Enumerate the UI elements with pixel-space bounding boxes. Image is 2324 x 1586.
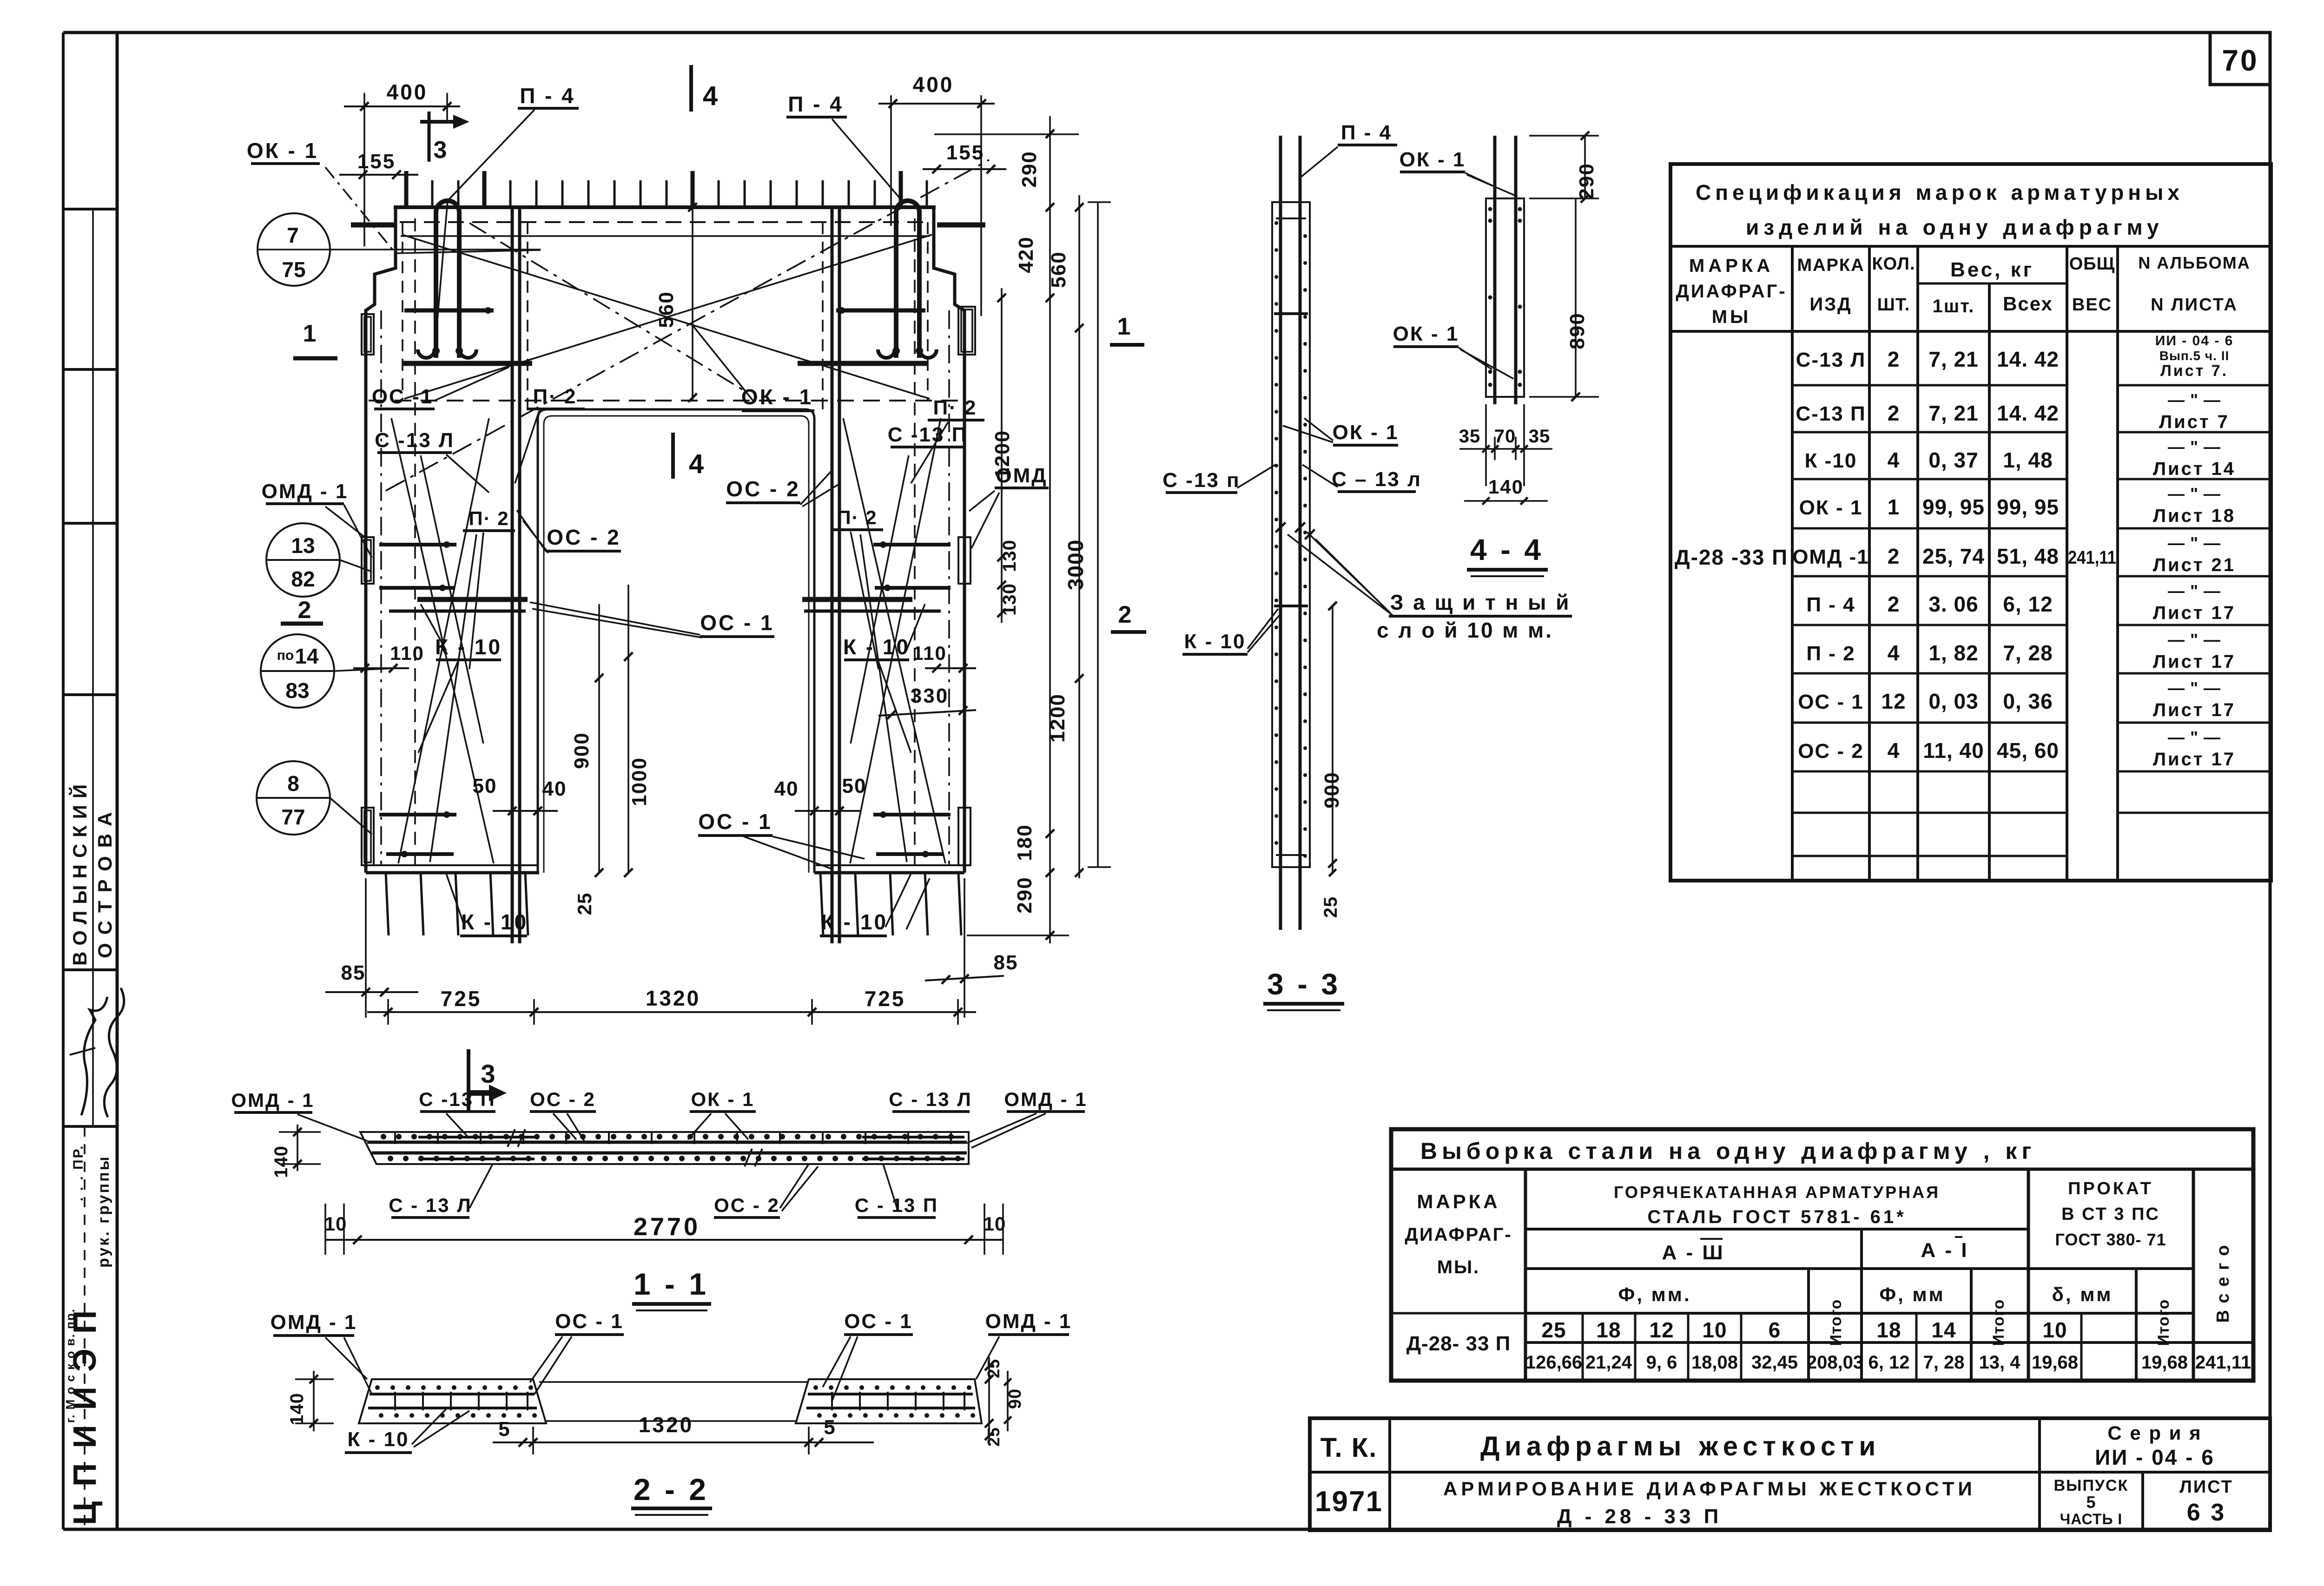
svg-text:140: 140 [287,1393,307,1425]
svg-text:МАРКА: МАРКА [1689,256,1774,276]
panel bottom edge left column [366,871,539,875]
svg-text:С -13 Л: С -13 Л [375,429,455,452]
svg-text:К - 10: К - 10 [348,1428,409,1451]
svg-text:3. 06: 3. 06 [1928,592,1978,616]
beam inner line [401,235,930,237]
svg-text:Лист 14: Лист 14 [2153,459,2236,479]
svg-text:ОМД - 1: ОМД - 1 [271,1311,357,1334]
mid bars right column [873,543,951,546]
svg-text:— ʺ —: — ʺ — [2168,581,2221,600]
opening outline [538,409,814,873]
svg-text:ГОРЯЧЕКАТАННАЯ АРМАТУРНАЯ: ГОРЯЧЕКАТАННАЯ АРМАТУРНАЯ [1614,1183,1940,1202]
svg-text:Д-28 -33 П: Д-28 -33 П [1675,545,1788,569]
svg-text:725: 725 [865,987,906,1011]
svg-text:— ʺ —: — ʺ — [2168,678,2221,698]
bottom bars left column [379,813,456,816]
top protruding ticks [404,171,409,207]
hooks under hairpins [418,349,435,358]
svg-text:Лист 7: Лист 7 [2159,412,2230,432]
svg-text:19,68: 19,68 [2032,1352,2078,1373]
svg-text:3000: 3000 [1063,539,1088,590]
section 3-3 cover ticks [1275,522,1285,532]
section 2-2 left block [359,1379,546,1423]
svg-text:290: 290 [1575,163,1598,199]
svg-text:Д - 28 - 33 П: Д - 28 - 33 П [1557,1505,1722,1528]
svg-text:КОЛ.: КОЛ. [1872,254,1915,274]
right dim chain outer [1078,195,1080,878]
svg-text:ОС - 2: ОС - 2 [714,1194,780,1216]
panel right outline [934,207,964,873]
svg-text:Всех: Всех [2003,293,2053,315]
svg-text:ГОСТ 380- 71: ГОСТ 380- 71 [2055,1230,2166,1249]
svg-text:ОСТРОВА: ОСТРОВА [94,804,116,958]
svg-text:1, 48: 1, 48 [2003,448,2053,472]
svg-text:3: 3 [434,137,447,164]
svg-text:1320: 1320 [639,1413,693,1437]
svg-text:ОМД - 1: ОМД - 1 [1004,1088,1087,1110]
svg-text:С – 13 л: С – 13 л [1332,468,1422,491]
svg-text:290: 290 [1018,151,1041,187]
svg-text:18: 18 [1596,1318,1621,1342]
circle 7/75 [257,213,330,286]
svg-text:110: 110 [912,642,947,664]
circle 8/77 [257,761,330,835]
svg-text:ВЕС: ВЕС [2072,295,2112,315]
svg-text:К - 10: К - 10 [843,635,910,659]
svg-text:4: 4 [1888,448,1900,472]
svg-text:12: 12 [1649,1318,1674,1342]
svg-text:Спецификация марок арматур: Спецификация марок арматурных [1696,180,2184,204]
svg-text:ИИ - 04 - 6: ИИ - 04 - 6 [2155,333,2234,349]
svg-text:ОМД - 1: ОМД - 1 [231,1089,314,1111]
svg-text:0, 36: 0, 36 [2003,689,2053,713]
svg-text:Лист 21: Лист 21 [2153,555,2236,575]
sheet number box 70 [2210,33,2270,85]
svg-text:51, 48: 51, 48 [1997,544,2059,568]
svg-text:7: 7 [287,223,299,247]
OK-1 bar end right [937,223,985,228]
svg-text:3 - 3: 3 - 3 [1267,967,1340,1001]
svg-text:— ʺ —: — ʺ — [2168,630,2221,649]
svg-text:2: 2 [298,597,311,624]
stamp signatures [81,997,107,1115]
section mark 3 bottom [467,1049,470,1112]
svg-text:ОС - 2: ОС - 2 [1798,740,1864,763]
svg-text:Итого: Итого [1990,1299,2007,1346]
svg-text:4: 4 [703,81,718,111]
svg-text:— ʺ —: — ʺ — [2168,390,2221,409]
section mark 4 top [689,65,693,112]
right dim chain mid [1049,116,1051,943]
svg-text:ПРОКАТ: ПРОКАТ [2068,1179,2153,1198]
svg-text:с л о й 10 м м.: с л о й 10 м м. [1377,618,1553,642]
bottom protruding ticks left [386,873,389,935]
title block frame [1310,1418,2270,1530]
svg-text:ЧАСТЬ I: ЧАСТЬ I [2060,1511,2122,1527]
section 3-3 bars [1279,136,1282,930]
svg-text:Вып.5 ч. II: Вып.5 ч. II [2159,349,2230,363]
svg-text:Т. К.: Т. К. [1320,1433,1378,1463]
svg-text:2: 2 [1118,601,1132,628]
svg-text:С - 13 Л: С - 13 Л [389,1194,472,1216]
svg-text:В с е г о: В с е г о [2213,1244,2233,1323]
svg-text:8: 8 [287,771,299,796]
svg-text:5: 5 [498,1418,510,1441]
svg-text:1: 1 [1117,313,1131,340]
svg-text:3: 3 [481,1059,495,1088]
bottom bars right column [873,813,951,816]
svg-text:Д-28- 33 П: Д-28- 33 П [1406,1332,1511,1355]
svg-text:35: 35 [1459,426,1481,447]
section 1-1 dots [381,1134,386,1139]
svg-text:Лист 17: Лист 17 [2153,603,2236,623]
section 3-3 inner ties [1274,312,1308,315]
P-4 hairpin left [436,201,459,358]
svg-text:Лист 18: Лист 18 [2153,506,2236,526]
svg-text:1320: 1320 [646,986,700,1010]
section cut line 1-2 left [1097,202,1099,867]
svg-text:0, 37: 0, 37 [1928,448,1978,472]
svg-text:Итого: Итого [2155,1299,2172,1346]
svg-text:50: 50 [842,775,867,797]
section 4-4 bars [1493,136,1497,404]
section 1-1 transverse ticks [394,1133,396,1144]
svg-text:155: 155 [946,141,984,164]
section 2-2 right block [796,1379,982,1423]
svg-text:14: 14 [1931,1318,1956,1342]
svg-text:5: 5 [2086,1493,2096,1512]
svg-text:П - 4: П - 4 [1806,593,1855,616]
svg-text:83: 83 [285,678,309,703]
section 4-4 dim 890 [1575,198,1577,397]
svg-text:99, 95: 99, 95 [1997,495,2059,519]
svg-text:40: 40 [542,777,567,800]
svg-text:Ф, мм: Ф, мм [1879,1283,1945,1305]
svg-text:С -13 п: С -13 п [1162,469,1240,492]
svg-text:1971: 1971 [1315,1486,1383,1518]
svg-text:П - 2: П - 2 [1806,642,1855,665]
svg-text:ОМД - 1: ОМД - 1 [985,1310,1072,1333]
svg-text:560: 560 [655,291,678,328]
svg-text:К - 10: К - 10 [821,910,888,934]
svg-text:7, 28: 7, 28 [2003,641,2053,665]
svg-text:А - I: А - I [1921,1239,1968,1262]
svg-text:по: по [277,648,294,663]
beam bottom dashed line [369,400,962,401]
svg-text:1, 82: 1, 82 [1928,641,1978,665]
svg-text:— ʺ —: — ʺ — [2168,437,2221,456]
svg-text:400: 400 [913,72,954,97]
svg-text:С -13 П: С -13 П [419,1088,496,1110]
svg-text:4: 4 [1888,641,1900,665]
svg-text:δ, мм: δ, мм [2052,1283,2113,1305]
svg-text:ШТ.: ШТ. [1877,295,1910,315]
svg-text:4: 4 [1888,738,1900,763]
svg-text:ОК - 1: ОК - 1 [1400,148,1466,171]
svg-text:900: 900 [570,732,593,769]
svg-text:725: 725 [441,987,482,1011]
svg-text:75: 75 [282,257,305,282]
crossing thin diagonals right column [843,418,945,863]
svg-text:180: 180 [1013,824,1036,861]
svg-text:Ф, мм.: Ф, мм. [1618,1283,1691,1305]
svg-text:13, 4: 13, 4 [1979,1352,2021,1373]
svg-text:4 - 4: 4 - 4 [1470,533,1544,566]
svg-text:7, 21: 7, 21 [1928,401,1978,425]
embedded plates right edge [958,307,975,355]
svg-text:14. 42: 14. 42 [1997,401,2059,425]
svg-text:ОМД -1: ОМД -1 [1792,546,1869,568]
specification table frame [1670,164,2271,881]
svg-text:ОМД - 1: ОМД - 1 [262,480,349,503]
panel left outline [366,207,396,873]
section 2-2 connecting lines [539,1381,809,1383]
svg-text:— ʺ —: — ʺ — [2168,728,2221,747]
svg-text:ОС - 1: ОС - 1 [1798,691,1864,713]
svg-text:5: 5 [824,1416,835,1439]
svg-text:45, 60: 45, 60 [1997,738,2059,763]
svg-text:85: 85 [341,961,366,984]
section 4-4 dots [1488,207,1492,211]
svg-text:П - 4: П - 4 [520,84,575,108]
svg-text:— ʺ —: — ʺ — [2168,484,2221,503]
svg-text:В СТ 3 ПС: В СТ 3 ПС [2061,1204,2160,1224]
svg-text:г. М о с к о в. пр.: г. М о с к о в. пр. [63,1308,77,1423]
svg-text:N ЛИСТА: N ЛИСТА [2151,295,2238,315]
svg-text:К - 10: К - 10 [1184,630,1246,653]
svg-text:ВОЛЫНСКИЙ: ВОЛЫНСКИЙ [68,778,91,966]
svg-text:МАРКА: МАРКА [1417,1191,1500,1212]
svg-text:14. 42: 14. 42 [1997,347,2059,371]
svg-text:ДИАФРАГ-: ДИАФРАГ- [1405,1224,1512,1245]
svg-text:ОС - 2: ОС - 2 [726,477,800,501]
svg-text:32,45: 32,45 [1751,1352,1798,1373]
svg-text:21,24: 21,24 [1585,1352,1632,1373]
svg-text:— ʺ —: — ʺ — [2168,533,2221,553]
svg-text:Лист 17: Лист 17 [2153,652,2236,672]
svg-text:ОС - 2: ОС - 2 [530,1088,596,1110]
svg-text:13: 13 [291,533,315,558]
svg-text:ВЫПУСК: ВЫПУСК [2054,1477,2129,1494]
svg-text:330: 330 [911,684,949,707]
section 4-4 outline [1486,198,1524,397]
svg-text:Лист 7.: Лист 7. [2160,362,2228,380]
left stamp strip dividers [63,208,117,211]
steel table header [1524,1169,1527,1381]
crossing thin diagonals beam [402,235,930,399]
svg-text:18: 18 [1876,1318,1901,1342]
svg-text:420: 420 [1015,236,1037,273]
page frame [63,31,2270,34]
section 3-3 dots [1274,221,1278,225]
svg-text:СТАЛЬ ГОСТ 5781- 61*: СТАЛЬ ГОСТ 5781- 61* [1647,1207,1906,1227]
svg-text:К - 10: К - 10 [461,910,528,934]
OS-1 top bars right [836,309,925,313]
svg-text:С - 13 Л: С - 13 Л [889,1088,972,1110]
svg-text:19,68: 19,68 [2141,1352,2188,1373]
svg-text:6 3: 6 3 [2187,1499,2226,1526]
svg-text:140: 140 [1488,476,1524,498]
svg-text:290: 290 [1013,876,1036,913]
svg-text:ОС - 2: ОС - 2 [547,525,621,549]
svg-text:6: 6 [1769,1318,1781,1342]
svg-text:П· 2: П· 2 [933,396,977,419]
svg-text:Вес, кг: Вес, кг [1950,258,2034,281]
svg-text:Лист 17: Лист 17 [2153,749,2236,770]
svg-text:МЫ: МЫ [1712,307,1751,327]
svg-text:Диафрагмы жесткости: Диафрагмы жесткости [1480,1431,1881,1461]
embedded plates left edge [362,314,374,355]
right dim chain inner [1001,288,1003,623]
section 2-2 right block bars [808,1393,973,1395]
svg-text:1200: 1200 [1046,693,1069,743]
svg-text:ОС - 1: ОС - 1 [698,809,772,834]
svg-text:85: 85 [994,951,1018,974]
svg-text:2: 2 [1888,544,1900,568]
svg-text:1: 1 [303,320,317,347]
svg-text:МАРКА: МАРКА [1797,256,1864,275]
svg-text:2 - 2: 2 - 2 [634,1472,709,1507]
svg-text:С-13 Л: С-13 Л [1796,349,1866,371]
svg-text:1 - 1: 1 - 1 [634,1267,709,1301]
svg-text:25: 25 [574,893,595,915]
svg-text:МЫ.: МЫ. [1437,1257,1480,1277]
svg-text:2770: 2770 [634,1213,700,1241]
svg-text:АРМИРОВАНИЕ ДИАФРАГМЫ ЖЕСТ: АРМИРОВАНИЕ ДИАФРАГМЫ ЖЕСТКОСТИ [1443,1478,1976,1500]
svg-text:7, 21: 7, 21 [1928,347,1978,371]
svg-text:ОС - 1: ОС - 1 [700,611,774,635]
svg-text:11, 40: 11, 40 [1923,738,1984,763]
svg-text:С-13 П: С-13 П [1796,402,1866,425]
bottom main dim row [367,1011,976,1013]
svg-text:6, 12: 6, 12 [1868,1352,1910,1373]
svg-text:155: 155 [357,150,396,173]
svg-text:4: 4 [689,449,704,479]
svg-text:130: 130 [999,540,1020,572]
column outer dash-dot lines [380,310,382,864]
section mark 4 in opening [671,433,675,479]
circle po14/83 [261,634,334,708]
svg-text:ДИАФРАГ-: ДИАФРАГ- [1676,281,1787,302]
svg-text:ОК - 1: ОК - 1 [691,1088,755,1110]
svg-text:2: 2 [1888,592,1900,616]
svg-text:7, 28: 7, 28 [1923,1352,1965,1373]
svg-text:Лист 17: Лист 17 [2153,700,2236,720]
panel top edge [394,205,936,209]
long dash-dot brace [386,160,989,491]
vertical dim 1000 [627,585,629,873]
OS-1 top bars left [404,309,494,313]
svg-text:241,11: 241,11 [2068,547,2116,568]
mid bars left column [379,543,456,546]
dashed verticals in beam [402,222,403,401]
svg-text:П· 2: П· 2 [469,507,509,529]
svg-text:25: 25 [1541,1318,1566,1342]
svg-text:2: 2 [1888,401,1900,425]
svg-text:ИИ - 04 - 6: ИИ - 04 - 6 [2095,1445,2215,1469]
svg-text:Итого: Итого [1827,1299,1845,1346]
panel top cover dashed line [400,221,930,223]
specification table rows [1792,384,2067,387]
P-4 hairpin right [896,201,919,358]
svg-text:130: 130 [999,583,1020,616]
svg-text:ОК - 1: ОК - 1 [247,138,318,163]
svg-text:1шт.: 1шт. [1933,296,1975,316]
svg-text:126,66: 126,66 [1525,1352,1582,1373]
svg-text:12: 12 [1881,689,1906,713]
svg-text:А - Ш: А - Ш [1662,1241,1724,1264]
svg-text:К -10: К -10 [1805,449,1857,472]
svg-text:6, 12: 6, 12 [2003,592,2053,616]
svg-text:З а щ и т н ы й: З а щ и т н ы й [1390,590,1571,614]
svg-text:. . . ПР.: . . . ПР. [71,1145,86,1201]
svg-text:208,03: 208,03 [1807,1352,1863,1373]
svg-text:99, 95: 99, 95 [1922,495,1985,519]
svg-text:Выборка стали на одну диа: Выборка стали на одну диафрагму , кг [1420,1138,2036,1164]
svg-text:ОС - 1: ОС - 1 [555,1310,624,1333]
svg-text:77: 77 [281,805,305,829]
circle 13/82 [266,523,340,597]
svg-text:ОК - 1: ОК - 1 [1393,322,1459,345]
svg-text:40: 40 [774,777,799,800]
svg-text:9, 6: 9, 6 [1646,1352,1677,1373]
svg-text:С е р и я: С е р и я [2107,1422,2202,1444]
section 1-1 dim 2770 [325,1239,1003,1241]
svg-text:П· 2: П· 2 [533,385,577,408]
svg-text:ОК - 1: ОК - 1 [741,385,813,409]
svg-text:ОК - 1: ОК - 1 [1333,421,1399,444]
svg-text:10: 10 [2042,1318,2067,1342]
svg-text:1000: 1000 [628,757,651,806]
svg-text:изделий на одну диафрагм: изделий на одну диафрагму [1746,215,2164,239]
section 4-4 dim 290 [1584,136,1586,198]
svg-text:50: 50 [473,775,497,797]
OK-1 bar end left [351,223,396,228]
svg-text:241,11: 241,11 [2195,1352,2251,1373]
svg-text:890: 890 [1566,312,1589,349]
svg-text:82: 82 [291,567,315,591]
dim 560 mid [692,207,693,400]
svg-text:2: 2 [1888,347,1900,371]
svg-text:70: 70 [2222,44,2258,77]
svg-text:1: 1 [1888,495,1900,519]
svg-text:900: 900 [1320,771,1343,808]
svg-text:560: 560 [1047,251,1070,288]
svg-text:П - 4: П - 4 [788,92,844,116]
P-2 double bars right column [831,207,834,943]
svg-text:0, 03: 0, 03 [1928,689,1978,713]
svg-text:С -13 П: С -13 П [888,423,968,446]
section 3-3 dim 900 [1332,606,1334,873]
svg-text:ИЗД: ИЗД [1809,294,1852,315]
svg-text:1200: 1200 [991,430,1014,479]
svg-text:ЛИСТ: ЛИСТ [2179,1477,2233,1497]
svg-text:18,08: 18,08 [1691,1352,1738,1373]
section mark 3 top [428,112,431,162]
svg-text:П - 4: П - 4 [1341,121,1392,144]
svg-text:ОС -1: ОС -1 [372,385,433,408]
svg-text:25, 74: 25, 74 [1922,544,1985,568]
svg-text:10: 10 [1702,1318,1727,1342]
svg-text:35: 35 [1529,426,1551,447]
svg-text:14: 14 [295,644,319,668]
vertical dim 900 [598,604,600,873]
svg-text:ОК - 1: ОК - 1 [1799,496,1863,519]
svg-text:ОС - 1: ОС - 1 [844,1310,913,1333]
bottom protruding ticks right [820,873,823,935]
svg-text:25: 25 [1320,896,1341,918]
svg-text:110: 110 [390,642,424,664]
